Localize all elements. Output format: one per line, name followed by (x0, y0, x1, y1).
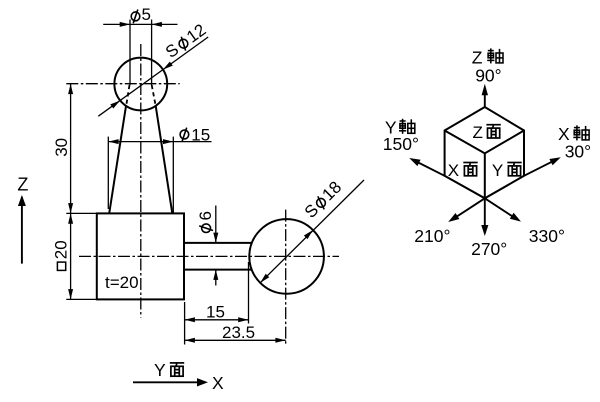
svg-text:30°: 30° (565, 141, 591, 161)
svg-text:Z: Z (17, 175, 28, 195)
cube 210° arrow (452, 198, 485, 219)
cube Y axis arrow (150°) (418, 162, 445, 175)
dim Sφ18 arrows (260, 274, 269, 283)
dim φ15 extension left (107, 137, 109, 209)
cube Z axis arrow (484, 92, 486, 107)
svg-text:Y: Y (154, 360, 166, 380)
centerline horizontal cylinder axis (79, 255, 339, 257)
cube outline (445, 107, 524, 198)
cone left edge (109, 106, 126, 213)
Y面 axis arrow bottom (133, 381, 205, 383)
dim 30 and □20 line (70, 84, 72, 300)
cube X axis arrow (30°) (524, 162, 552, 176)
centerline vertical main (140, 44, 142, 318)
Z axis arrow left (21, 197, 23, 264)
svg-text:t=20: t=20 (105, 273, 139, 292)
dim 15 extension right (248, 262, 250, 324)
centerline vertical sphere Sφ18 (285, 210, 287, 345)
svg-text:330°: 330° (529, 226, 565, 246)
dim φ5 arrows (120, 22, 130, 27)
dim □20 text (52, 240, 71, 270)
dim 23.5 line (185, 339, 286, 341)
svg-text:15: 15 (191, 125, 210, 144)
dim φ5 text (131, 10, 140, 24)
hidden cone edge right (dashed) (152, 85, 156, 106)
svg-text:X: X (212, 373, 224, 393)
svg-text:Y: Y (492, 161, 503, 180)
dim φ5 line (103, 23, 177, 25)
cube inner edges (445, 131, 524, 199)
sphere Sφ12 outline (114, 58, 167, 111)
dim φ6 line lower (215, 270, 217, 286)
svg-text:90°: 90° (475, 66, 501, 86)
cube 330° arrow (485, 198, 518, 219)
dim φ6 arrows (213, 233, 218, 243)
svg-text:150°: 150° (383, 134, 419, 154)
dim 30 arrows (68, 84, 73, 94)
dim φ5 extension left (129, 20, 131, 86)
svg-text:Z: Z (473, 123, 483, 142)
dim extension block bottom (66, 298, 97, 300)
dim □20 arrows (68, 213, 73, 223)
svg-text:23.5: 23.5 (222, 323, 255, 342)
cylinder φ6 bottom edge (184, 269, 252, 271)
svg-text:5: 5 (142, 5, 151, 24)
dim 15/23.5 extension left (184, 302, 186, 345)
svg-text:6: 6 (196, 211, 215, 220)
hidden cone edge left (dashed) (126, 85, 129, 106)
svg-text:X: X (448, 161, 459, 180)
dim extension block top (66, 212, 97, 214)
svg-text:30: 30 (52, 138, 71, 157)
dim φ15 arrows (108, 139, 118, 144)
dim Sφ12 text (162, 20, 210, 62)
svg-text:Z: Z (472, 47, 483, 67)
svg-text:270°: 270° (471, 239, 507, 259)
centerline horizontal sphere top (66, 83, 179, 85)
cone right edge (156, 106, 173, 213)
dim Sφ18 leader line (260, 180, 364, 283)
dim Sφ12 leader line (98, 37, 208, 116)
svg-text:15: 15 (206, 303, 225, 322)
svg-text:210°: 210° (414, 226, 450, 246)
dim φ5 extension right (151, 20, 153, 86)
block □20 outline (97, 213, 184, 299)
dim Sφ12 arrows (110, 101, 120, 109)
dim φ15 extension right (172, 137, 174, 214)
dim 30 text (52, 138, 71, 157)
cube 270° arrow (484, 198, 486, 233)
dim φ15 line (108, 141, 211, 143)
dim Sφ18 text (301, 178, 345, 222)
svg-text:20: 20 (52, 240, 71, 259)
dim 23.5 arrows (185, 338, 195, 343)
dim 15 arrows (185, 317, 195, 322)
cylinder φ6 top edge (184, 242, 252, 244)
dim φ15 text (180, 128, 189, 142)
dim φ6 line upper (215, 206, 217, 243)
dim 15 line (185, 319, 249, 321)
dim φ6 text (196, 211, 215, 232)
sphere Sφ18 outline (249, 219, 324, 294)
